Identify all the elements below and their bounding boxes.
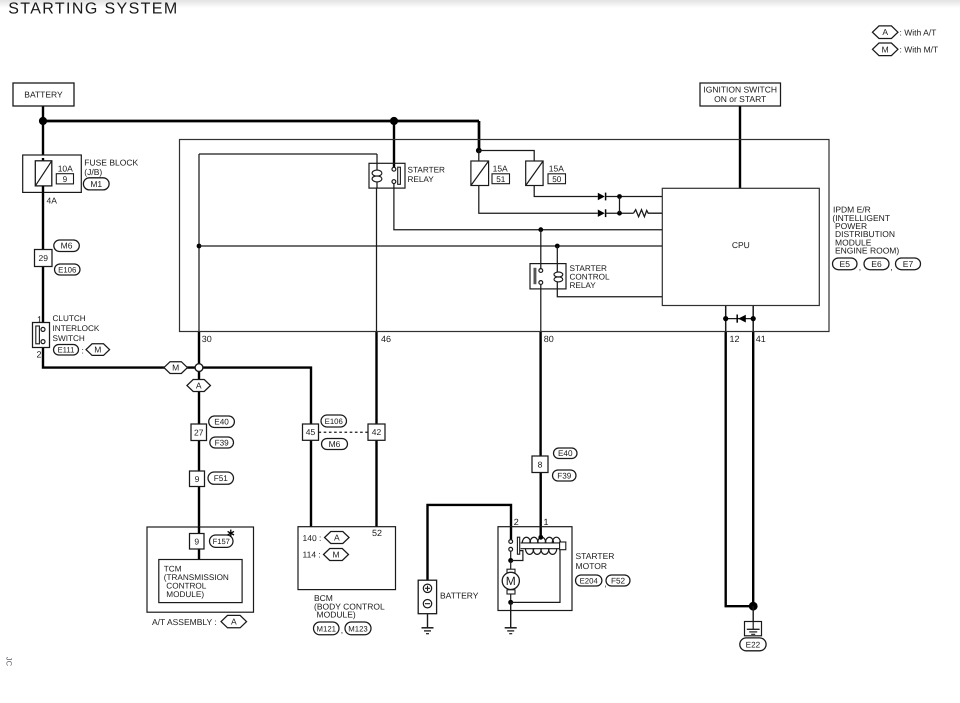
svg-text:MODULE): MODULE) bbox=[166, 590, 204, 599]
svg-text:30: 30 bbox=[202, 334, 212, 344]
svg-text:E40: E40 bbox=[558, 449, 573, 458]
svg-text:INTERLOCK: INTERLOCK bbox=[53, 324, 100, 333]
svg-text:9: 9 bbox=[63, 175, 68, 184]
svg-text:SWITCH: SWITCH bbox=[53, 334, 85, 343]
svg-text:MODULE): MODULE) bbox=[317, 609, 356, 619]
svg-text:CONTROL: CONTROL bbox=[570, 273, 610, 282]
svg-text:F51: F51 bbox=[214, 474, 229, 483]
svg-text:29: 29 bbox=[39, 253, 49, 263]
svg-text:M: M bbox=[506, 574, 516, 588]
svg-text:A: A bbox=[334, 532, 340, 542]
svg-text:STARTER: STARTER bbox=[576, 551, 615, 561]
svg-text:51: 51 bbox=[496, 175, 506, 184]
svg-text:F39: F39 bbox=[215, 438, 230, 447]
svg-text:27: 27 bbox=[194, 427, 204, 437]
svg-text:BATTERY: BATTERY bbox=[24, 90, 63, 100]
svg-text:F52: F52 bbox=[611, 576, 626, 585]
svg-text:F157: F157 bbox=[213, 537, 230, 546]
svg-text:2: 2 bbox=[37, 349, 42, 359]
svg-text:STARTING SYSTEM: STARTING SYSTEM bbox=[8, 0, 178, 17]
svg-text:E40: E40 bbox=[214, 418, 229, 427]
svg-text:M121: M121 bbox=[316, 624, 336, 633]
svg-text:45: 45 bbox=[306, 427, 316, 437]
svg-text:FUSE BLOCK: FUSE BLOCK bbox=[84, 157, 138, 167]
svg-text:114 :: 114 : bbox=[303, 550, 321, 560]
svg-text:E6: E6 bbox=[871, 259, 882, 269]
svg-text:,: , bbox=[890, 262, 892, 272]
svg-text:M: M bbox=[94, 345, 101, 355]
svg-text:E7: E7 bbox=[903, 259, 914, 269]
svg-text:MOTOR: MOTOR bbox=[576, 561, 607, 571]
svg-text:A: A bbox=[882, 27, 888, 37]
svg-text:,: , bbox=[341, 625, 343, 635]
svg-text:M6: M6 bbox=[61, 241, 73, 251]
svg-text:E111: E111 bbox=[57, 346, 74, 355]
svg-text:: With A/T: : With A/T bbox=[900, 27, 937, 37]
svg-text:F39: F39 bbox=[557, 471, 572, 480]
svg-text:10A: 10A bbox=[58, 164, 73, 174]
svg-text:CPU: CPU bbox=[732, 240, 750, 250]
svg-text:A: A bbox=[196, 380, 202, 390]
svg-text:STARTER: STARTER bbox=[570, 264, 608, 273]
svg-text:4A: 4A bbox=[47, 195, 58, 205]
svg-text:ENGINE ROOM): ENGINE ROOM) bbox=[835, 246, 899, 256]
svg-text:15A: 15A bbox=[549, 164, 564, 174]
svg-text:E204: E204 bbox=[580, 576, 599, 585]
svg-text:140 :: 140 : bbox=[303, 533, 322, 543]
svg-text:9: 9 bbox=[194, 536, 199, 546]
svg-text:CLUTCH: CLUTCH bbox=[53, 314, 86, 323]
svg-text:1: 1 bbox=[544, 517, 549, 527]
svg-text:E106: E106 bbox=[325, 417, 343, 426]
svg-text:A/T ASSEMBLY :: A/T ASSEMBLY : bbox=[152, 617, 217, 627]
svg-text:2: 2 bbox=[514, 517, 519, 527]
svg-text:50: 50 bbox=[552, 175, 562, 184]
svg-text:8: 8 bbox=[538, 459, 543, 469]
svg-text:M: M bbox=[332, 549, 339, 559]
svg-text:(J/B): (J/B) bbox=[84, 167, 102, 177]
svg-text:ON or START: ON or START bbox=[714, 94, 766, 104]
svg-text:M1: M1 bbox=[90, 179, 102, 189]
svg-text:80: 80 bbox=[544, 334, 554, 344]
svg-text:STARTER: STARTER bbox=[408, 165, 446, 174]
svg-text:E106: E106 bbox=[58, 265, 76, 274]
svg-text:M6: M6 bbox=[329, 439, 341, 449]
svg-text:M123: M123 bbox=[348, 624, 368, 633]
svg-text:: With M/T: : With M/T bbox=[900, 44, 939, 54]
svg-text:E5: E5 bbox=[840, 259, 851, 269]
svg-text:46: 46 bbox=[381, 334, 391, 344]
svg-text:12: 12 bbox=[730, 334, 740, 344]
svg-text:,: , bbox=[859, 262, 861, 272]
svg-text:9: 9 bbox=[195, 474, 200, 484]
svg-text:A: A bbox=[231, 617, 237, 627]
svg-text:52: 52 bbox=[372, 528, 382, 538]
svg-text:E22: E22 bbox=[746, 640, 761, 649]
svg-text:41: 41 bbox=[756, 334, 766, 344]
svg-text:JC: JC bbox=[4, 657, 13, 667]
svg-text:RELAY: RELAY bbox=[570, 281, 597, 290]
svg-text:RELAY: RELAY bbox=[408, 175, 435, 184]
svg-text:15A: 15A bbox=[493, 164, 508, 174]
svg-text:M: M bbox=[882, 44, 889, 54]
svg-text:42: 42 bbox=[372, 427, 382, 437]
svg-text::: : bbox=[82, 345, 84, 355]
svg-text:BATTERY: BATTERY bbox=[440, 591, 479, 601]
svg-text:M: M bbox=[172, 363, 179, 373]
